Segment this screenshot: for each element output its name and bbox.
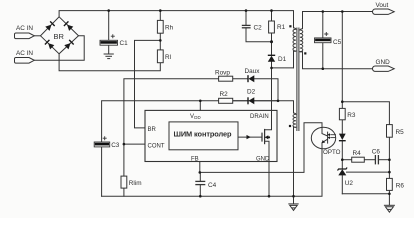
wire Daux to Rovp [233, 78, 248, 80]
label D1 [278, 56, 287, 63]
label OPTO [323, 149, 341, 156]
svg-text:BR: BR [54, 32, 65, 41]
wire snubber to primary bottom [272, 67, 294, 69]
wire LED cathode to R4 node [341, 141, 343, 160]
bridge diode top-right [63, 21, 73, 31]
resistor Rh [157, 20, 163, 33]
wire branch row to R5 [342, 102, 389, 125]
wire U2 ref to right rail [347, 171, 390, 173]
diode D2 [248, 97, 254, 104]
wire AC input 1 to bridge left [34, 35, 40, 37]
wire right rail R5 to R6 [388, 137, 390, 178]
label C5 [333, 39, 342, 46]
label GND output [376, 59, 391, 66]
connector arrow AC IN top [14, 33, 34, 39]
svg-text:DRAIN: DRAIN [250, 114, 269, 120]
wire C4 top [199, 172, 201, 181]
resistor Rlim [121, 176, 127, 188]
label AC IN top [16, 25, 33, 32]
label CONT pin [148, 143, 165, 149]
wire C5 top riser [322, 12, 324, 39]
wire tap to BR pin [135, 40, 161, 128]
wire C2 bottom link [246, 28, 272, 42]
label Daux [245, 68, 261, 75]
wire IC GND pin drop [268, 162, 270, 197]
svg-text:Rh: Rh [165, 25, 174, 32]
svg-text:C6: C6 [372, 148, 381, 155]
wire D2 anode lead [255, 100, 279, 102]
label GND pin [256, 156, 270, 162]
svg-text:Rlim: Rlim [129, 180, 142, 187]
label R6 [396, 183, 405, 190]
wire R4 node to U2 [341, 160, 343, 169]
chassis ground secondary [384, 205, 395, 212]
wire C2 riser [245, 11, 247, 26]
wire C1 riser [108, 11, 110, 41]
wire D2 to R2 [233, 100, 248, 102]
wire R3 bottom to opto LED [341, 120, 343, 134]
label C1 [120, 40, 129, 47]
svg-text:GND: GND [376, 59, 391, 66]
svg-text:CONT: CONT [148, 143, 165, 149]
label C2 [254, 24, 263, 31]
label AC IN bottom [16, 50, 33, 57]
svg-text:C5: C5 [333, 39, 342, 46]
capacitor C2 [242, 25, 251, 27]
bridge rectifier BR diamond [41, 17, 79, 54]
svg-text:GND: GND [256, 156, 270, 162]
label R1 [277, 24, 286, 31]
connector arrow AC IN bottom [14, 57, 34, 63]
connector arrow Vout [373, 9, 395, 14]
wire CONT pin [124, 143, 145, 145]
wire chassis ground stem [293, 196, 295, 203]
transformer T1 core [297, 28, 299, 132]
wire VDD riser [199, 101, 201, 111]
secondary phase dot [304, 52, 306, 54]
svg-text:Vout: Vout [376, 2, 389, 9]
primary phase dot [289, 25, 291, 27]
resistor R4 [352, 157, 365, 162]
transformer aux winding [293, 113, 296, 127]
label FB pin [191, 156, 199, 162]
svg-text:C3: C3 [111, 142, 120, 149]
wire bias row to aux winding top [200, 101, 293, 113]
svg-text:C2: C2 [254, 24, 263, 31]
wire R1 bottom to D1 [271, 33, 273, 55]
bridge diode top-left [45, 21, 55, 31]
wire Vout branch riser to R3 node [341, 12, 343, 102]
wire primary bottom [293, 51, 295, 68]
wire C6 to right rail [378, 159, 389, 161]
wire Rh bottom to tap node [159, 33, 161, 50]
wire R4 to C6 [364, 159, 375, 161]
capacitor C5 [315, 32, 332, 43]
svg-text:R3: R3 [347, 112, 356, 119]
opto light arrows [330, 135, 336, 138]
label D2 [247, 89, 256, 96]
bridge diode bottom-right [64, 39, 74, 49]
chassis ground primary [288, 204, 298, 211]
wire R6 bottom to ground [388, 190, 390, 205]
wire Rovp left to CONT branch [124, 79, 219, 176]
wire B- from bridge bottom to Rl bottom [59, 54, 160, 71]
MOSFET Q1 [262, 129, 265, 144]
wire B+ top rail [59, 11, 293, 28]
opto phototransistor [322, 128, 328, 148]
svg-text:OPTO: OPTO [323, 149, 341, 156]
wire C4 bottom [199, 185, 201, 196]
svg-text:Daux: Daux [245, 68, 261, 75]
wire R1 top stub [271, 11, 273, 21]
resistor Rl [157, 50, 163, 63]
wire R3 top stub [341, 102, 343, 109]
svg-text:BR: BR [148, 127, 157, 133]
label Vout [376, 2, 389, 9]
resistor R5 [387, 125, 393, 138]
label Rh [165, 25, 174, 32]
capacitor C4 [195, 181, 205, 184]
connector arrow GND [373, 66, 395, 71]
wire R4 left lead [342, 159, 351, 161]
svg-text:FB: FB [191, 156, 199, 162]
wire C1 to ground [108, 45, 110, 53]
svg-text:R6: R6 [396, 183, 405, 190]
wire D1 anode down [271, 62, 273, 68]
svg-text:C4: C4 [208, 182, 217, 189]
svg-text:AC IN: AC IN [16, 25, 33, 32]
svg-text:Rovp: Rovp [215, 70, 230, 77]
label R2 [220, 91, 229, 98]
transformer secondary winding [300, 29, 303, 52]
IC inner box PWM controller [169, 122, 238, 150]
svg-text:ШИМ контролер: ШИМ контролер [174, 129, 233, 138]
label Rlim [129, 180, 142, 187]
svg-text:R2: R2 [220, 91, 229, 98]
wire FB row to opto collector [200, 123, 322, 173]
label R4 [353, 150, 362, 157]
label C3 [111, 142, 120, 149]
wire C3 bottom to rail [101, 147, 103, 196]
svg-text:U2: U2 [345, 180, 354, 187]
transformer primary winding [293, 28, 296, 52]
wire secondary top riser [303, 12, 375, 29]
resistor R2 [219, 98, 233, 103]
label U2 [345, 180, 354, 187]
wire secondary bottom to GND arrow [303, 52, 375, 69]
wire bias row left to C3 [102, 101, 201, 142]
diode D1 [268, 55, 275, 62]
wire AC input 2 to bridge right [34, 36, 84, 61]
svg-text:D1: D1 [278, 56, 287, 63]
svg-text:R4: R4 [353, 150, 362, 157]
capacitor C1 [100, 34, 118, 45]
label R3 [347, 112, 356, 119]
capacitor C3 [94, 136, 110, 147]
svg-text:D2: D2 [247, 89, 256, 96]
svg-text:Rl: Rl [165, 54, 171, 61]
zener U2 [338, 168, 348, 176]
svg-text:R5: R5 [396, 129, 405, 136]
diode Daux [248, 75, 254, 82]
wire DRAIN pin riser [271, 68, 273, 111]
label R5 [396, 129, 405, 136]
wire U2 bottom row to right rail [342, 193, 389, 195]
wire FB pin riser [199, 162, 201, 173]
wire C5 bottom riser [322, 43, 324, 69]
label Rovp [215, 70, 230, 77]
svg-text:C1: C1 [120, 40, 129, 47]
optocoupler U3 body [311, 127, 335, 149]
opto LED D3 [339, 134, 346, 141]
wire Rh top stub [159, 11, 161, 21]
aux phase dot [289, 125, 291, 127]
wire bottom source rail [102, 148, 322, 196]
wire aux winding bottom [293, 127, 295, 196]
wire Rlim bottom [123, 188, 125, 196]
label C6 [372, 148, 381, 155]
label C4 [208, 182, 217, 189]
resistor R1 [269, 21, 275, 33]
IC U1 outer box [145, 110, 277, 161]
svg-text:R1: R1 [277, 24, 286, 31]
label PWM controller [174, 129, 233, 138]
resistor R3 [339, 108, 345, 119]
wire Daux riser [255, 79, 279, 101]
label Rl [165, 54, 171, 61]
label BR pin [148, 127, 157, 133]
svg-text:AC IN: AC IN [16, 50, 33, 57]
wire U2 anode down [341, 176, 343, 194]
label DRAIN pin [250, 114, 269, 120]
bridge diode bottom-left [44, 39, 54, 49]
capacitor C6 [375, 155, 378, 164]
ground below C1 [104, 54, 114, 59]
gate drive arrow [239, 136, 262, 138]
label VDD pin [190, 114, 201, 120]
label BR [54, 32, 65, 41]
wire Vout rail to arrow [342, 11, 374, 13]
resistor R6 [387, 178, 393, 190]
svg-text:DD: DD [194, 115, 200, 120]
resistor Rovp [219, 76, 233, 81]
